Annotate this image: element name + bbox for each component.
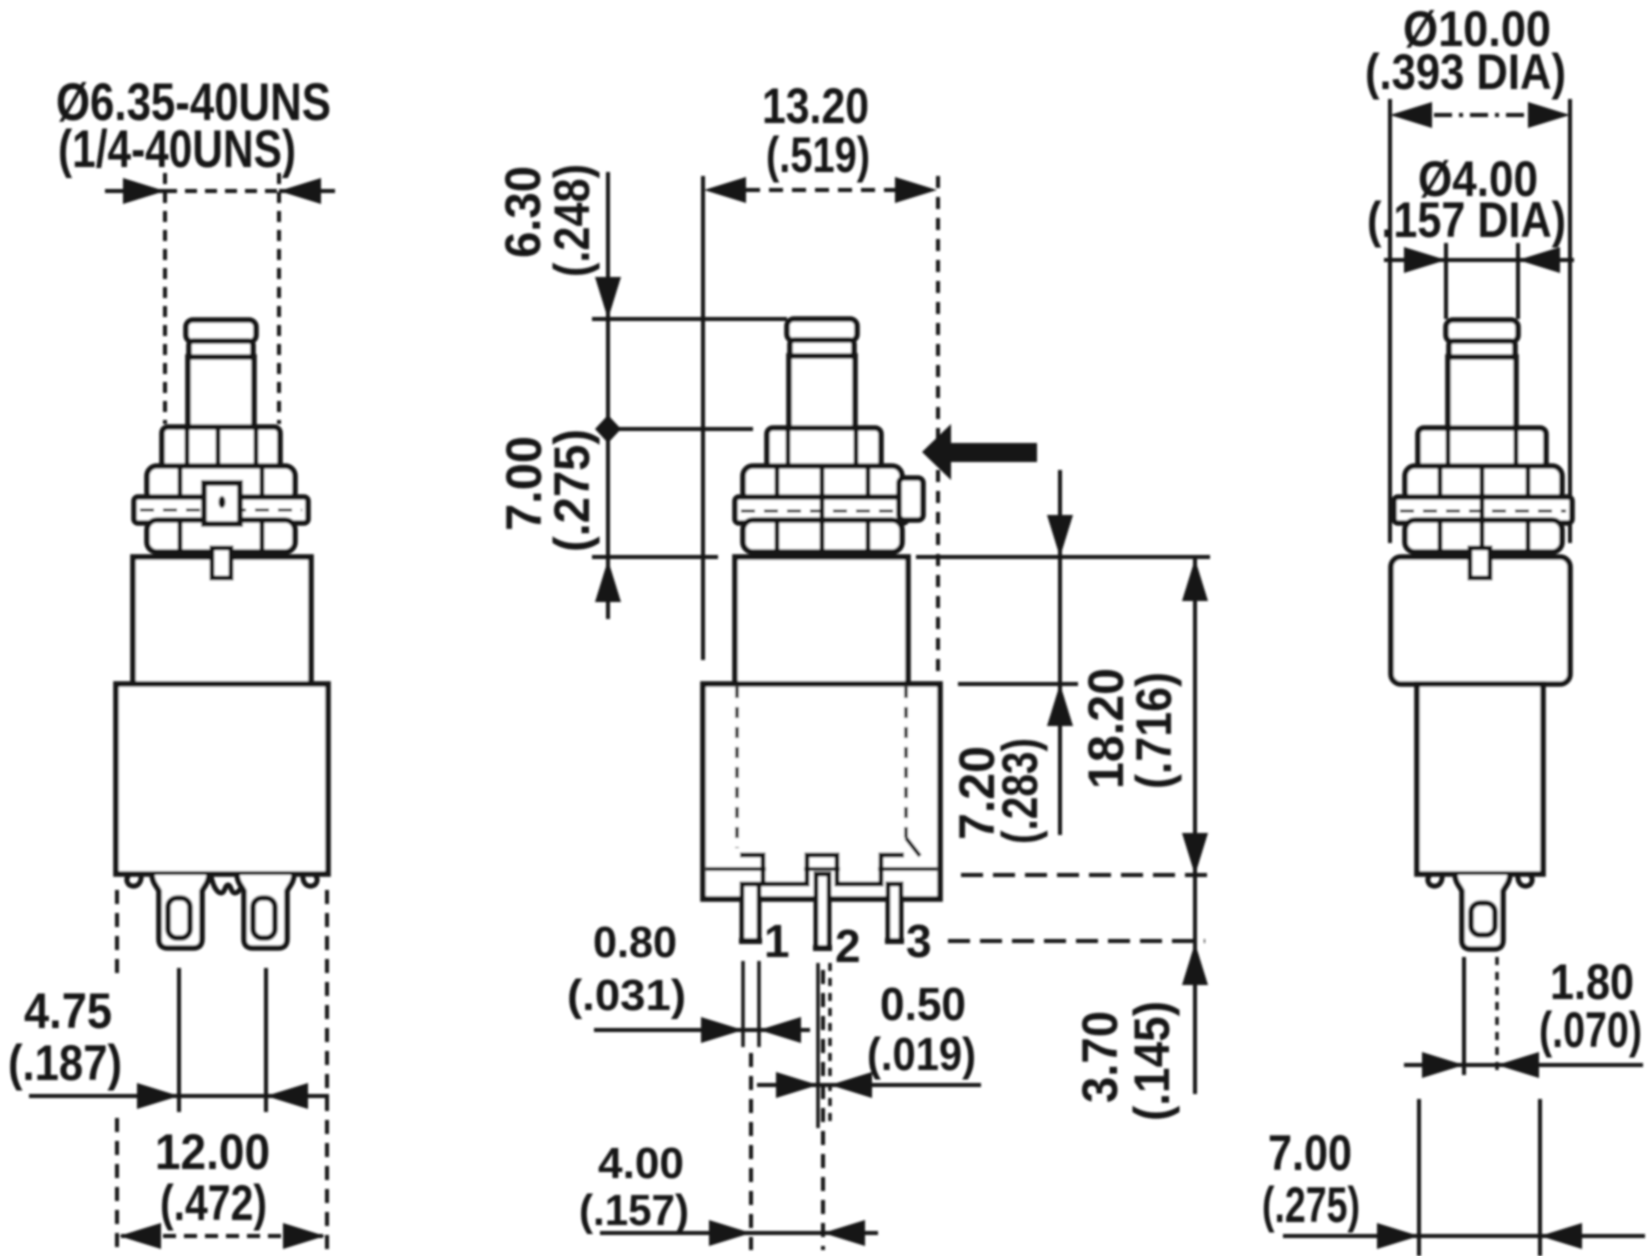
extension line 4.00 right bbox=[1516, 243, 1520, 319]
dimension line 7.00 right bbox=[1283, 1223, 1645, 1249]
svg-text:(.519): (.519) bbox=[766, 127, 870, 183]
washer plate bbox=[134, 497, 308, 523]
dimension line 6.35 bbox=[105, 178, 335, 204]
svg-text:1: 1 bbox=[764, 915, 790, 967]
pin 1 tip bbox=[739, 938, 762, 944]
svg-text:(.248): (.248) bbox=[544, 164, 600, 277]
hex nut upper bbox=[147, 466, 295, 502]
dimension line 0.80 bbox=[594, 1017, 810, 1043]
hex center facet line bbox=[820, 467, 825, 551]
side tab right bbox=[899, 478, 923, 520]
svg-text:(.275): (.275) bbox=[544, 429, 600, 552]
hex center facet right bbox=[1480, 467, 1485, 551]
extension line 10.00 left bbox=[1388, 99, 1392, 543]
pin 3 bbox=[888, 884, 901, 941]
lower body right bbox=[1417, 684, 1543, 874]
extension line pin2 center bbox=[821, 970, 825, 1250]
svg-text:(.393 DIA): (.393 DIA) bbox=[1365, 44, 1566, 100]
level line body top right bbox=[916, 555, 1210, 559]
pin 2 bbox=[816, 874, 829, 948]
extension line terminal left side bbox=[1462, 957, 1466, 1075]
extension line lower body right bbox=[1538, 1099, 1542, 1256]
svg-text:7.00: 7.00 bbox=[1268, 1125, 1352, 1181]
svg-text:13.20: 13.20 bbox=[762, 78, 869, 134]
plunger stem right bbox=[1448, 357, 1516, 430]
bushing collar mid bbox=[767, 428, 881, 472]
extension line 13.20 left bbox=[701, 176, 705, 660]
hidden line left bbox=[735, 687, 739, 848]
svg-text:(.031): (.031) bbox=[567, 971, 686, 1020]
dimension line 4.00 bbox=[600, 1220, 878, 1246]
svg-text:4.00: 4.00 bbox=[598, 1139, 684, 1188]
svg-text:3.70: 3.70 bbox=[1072, 1011, 1128, 1103]
lower body bbox=[116, 684, 328, 874]
base frame mid bbox=[703, 684, 940, 899]
dimension line 13.20 bbox=[704, 177, 937, 203]
hex nut upper right bbox=[1405, 466, 1562, 502]
hidden line right bbox=[904, 687, 908, 838]
LEFT-VIEW bbox=[8, 73, 335, 1254]
extension line body left bbox=[115, 890, 119, 1254]
hex nut upper mid bbox=[743, 466, 902, 502]
svg-text:(.145): (.145) bbox=[1124, 1001, 1180, 1121]
level line pin bottom right bbox=[948, 939, 1205, 943]
plunger stem mid bbox=[789, 356, 855, 430]
svg-text:(.275): (.275) bbox=[1262, 1177, 1360, 1233]
svg-text:(1/4-40UNS): (1/4-40UNS) bbox=[58, 120, 296, 179]
dimension line 18.20 and 3.70 vertical bbox=[1182, 557, 1208, 1094]
svg-text:(.070): (.070) bbox=[1539, 1002, 1642, 1058]
index tab bbox=[212, 548, 231, 578]
dimension line 12.00 bbox=[119, 1223, 325, 1249]
extension line 4.00 left bbox=[1444, 243, 1448, 319]
svg-text:0.50: 0.50 bbox=[880, 978, 966, 1030]
level line base bottom right bbox=[961, 873, 1211, 877]
extension line terminal right side bbox=[1495, 957, 1499, 1075]
svg-text:0.80: 0.80 bbox=[593, 918, 677, 967]
svg-text:3: 3 bbox=[906, 915, 932, 967]
pin 2 tip bbox=[813, 945, 832, 951]
plunger band mid bbox=[790, 340, 854, 358]
washer plate right bbox=[1394, 497, 1572, 523]
dimension line 1.80 bbox=[1404, 1052, 1643, 1078]
hex nut lower bbox=[147, 520, 295, 552]
hook left bbox=[127, 874, 141, 886]
terminal right bbox=[237, 875, 294, 948]
extension line 13.20 right bbox=[936, 176, 940, 680]
dimension line 0.50 bbox=[757, 1072, 981, 1098]
extension line right 6.35 bbox=[277, 173, 281, 424]
bushing collar bbox=[162, 427, 280, 471]
terminal left bbox=[152, 875, 209, 948]
hook right bbox=[303, 874, 317, 886]
level line base top right bbox=[958, 682, 1078, 686]
svg-text:(.283): (.283) bbox=[992, 738, 1048, 844]
index tab right bbox=[1470, 548, 1490, 578]
upper body bbox=[133, 557, 311, 684]
dimension line 4.00 dia bbox=[1384, 247, 1574, 273]
dimension line 7.20 vertical bbox=[1047, 470, 1073, 835]
plunger cap mid bbox=[787, 319, 857, 341]
upper body mid bbox=[735, 557, 908, 684]
plunger cap right bbox=[1446, 320, 1518, 342]
level line plunger top bbox=[592, 317, 787, 321]
center notch bbox=[211, 876, 245, 893]
extension line 10.00 right bbox=[1568, 99, 1572, 543]
dimension line 6.30-7.00 vertical bbox=[595, 172, 621, 619]
svg-text:(.716): (.716) bbox=[1126, 672, 1182, 789]
plunger stem bbox=[188, 357, 254, 429]
extension line lower body left bbox=[1417, 1099, 1421, 1256]
dimension line 10.00 bbox=[1390, 102, 1570, 128]
RIGHT-VIEW bbox=[1262, 1, 1645, 1256]
hex nut lower right bbox=[1405, 520, 1562, 552]
svg-text:12.00: 12.00 bbox=[155, 1124, 270, 1180]
svg-text:(.157): (.157) bbox=[579, 1186, 689, 1235]
upper body right bbox=[1391, 557, 1570, 684]
bushing collar right bbox=[1418, 428, 1546, 472]
MIDDLE-VIEW bbox=[495, 78, 1211, 1250]
extension line pin1 center bbox=[749, 1053, 753, 1250]
plunger band bbox=[189, 341, 253, 359]
svg-text:4.75: 4.75 bbox=[24, 983, 112, 1039]
chamfer bbox=[906, 838, 920, 856]
pin 3 tip bbox=[885, 938, 904, 944]
level line collar top bbox=[597, 427, 753, 431]
svg-text:(.019): (.019) bbox=[867, 1028, 976, 1080]
base seam bbox=[706, 867, 937, 871]
hex nut lower mid bbox=[743, 520, 902, 552]
dimension line 4.75 bbox=[29, 1083, 329, 1109]
svg-text:6.30: 6.30 bbox=[495, 166, 551, 258]
svg-text:(.157 DIA): (.157 DIA) bbox=[1367, 192, 1566, 248]
extension line body right bbox=[325, 890, 329, 1254]
hook right right-view bbox=[1518, 874, 1532, 886]
extension line terminal right center bbox=[264, 968, 268, 1112]
level line body top left bbox=[592, 555, 718, 559]
inner contour with cups bbox=[740, 855, 904, 884]
pin 1 bbox=[742, 884, 759, 941]
washer plate mid bbox=[735, 497, 907, 523]
svg-text:(.187): (.187) bbox=[8, 1035, 122, 1091]
hook left right-view bbox=[1428, 874, 1442, 886]
extension lines pin2 sides bbox=[816, 963, 820, 1128]
svg-text:2: 2 bbox=[835, 920, 861, 972]
terminal right-view bbox=[1455, 875, 1510, 949]
key square bbox=[204, 483, 240, 524]
svg-text:(.472): (.472) bbox=[160, 1175, 267, 1231]
extension line left 6.35 bbox=[163, 173, 167, 424]
extension line terminal left center bbox=[177, 968, 181, 1112]
push arrow bbox=[922, 424, 1037, 480]
plunger band right bbox=[1449, 341, 1515, 359]
plunger cap bbox=[186, 320, 256, 342]
extension lines pin1 sides bbox=[743, 961, 759, 1047]
